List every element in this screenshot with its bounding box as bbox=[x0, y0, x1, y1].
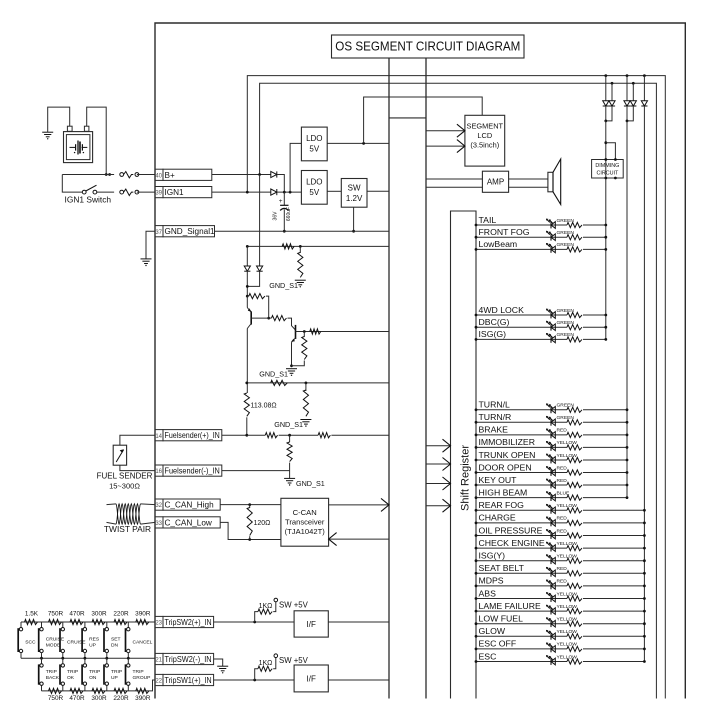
svg-text:GREEN: GREEN bbox=[557, 320, 575, 326]
svg-text:1.5K: 1.5K bbox=[25, 611, 39, 618]
speaker SP1 bbox=[548, 172, 553, 192]
svg-text:YELLOW: YELLOW bbox=[557, 617, 578, 623]
node B+ rail taps bbox=[611, 82, 614, 85]
transceiver U7 C-CAN bbox=[281, 498, 329, 546]
svg-text:TRIP: TRIP bbox=[133, 669, 144, 675]
resistor 750R bottom bbox=[49, 688, 62, 693]
pin 23 TripSW2(+)_IN bbox=[155, 616, 163, 627]
wire D2 out to LDO bbox=[277, 191, 301, 193]
wire Q2 emitter to ground bbox=[291, 342, 293, 366]
svg-text:C-CAN: C-CAN bbox=[293, 508, 317, 517]
svg-text:GND_S1: GND_S1 bbox=[274, 420, 303, 429]
svg-text:YELLOW: YELLOW bbox=[557, 604, 578, 610]
wire LDO1 feed bbox=[290, 143, 301, 192]
svg-text:ESC OFF: ESC OFF bbox=[479, 639, 517, 649]
resistor R12 base loop bbox=[249, 294, 265, 299]
svg-text:I/F: I/F bbox=[307, 620, 316, 629]
svg-text:GREEN: GREEN bbox=[557, 332, 575, 338]
svg-text:TAIL: TAIL bbox=[479, 215, 497, 225]
svg-text:GREEN: GREEN bbox=[557, 230, 575, 236]
resistor R23 120ohm bbox=[249, 505, 251, 508]
svg-text:YELLOW: YELLOW bbox=[557, 629, 578, 635]
svg-text:GREEN: GREEN bbox=[557, 218, 575, 224]
wire fuel sender top bbox=[120, 435, 155, 445]
svg-text:RED: RED bbox=[557, 478, 568, 484]
svg-text:SW +5V: SW +5V bbox=[279, 656, 309, 665]
svg-text:TRUNK OPEN: TRUNK OPEN bbox=[479, 450, 536, 460]
svg-text:YELLOW: YELLOW bbox=[557, 654, 578, 660]
svg-text:I/F: I/F bbox=[307, 674, 316, 683]
svg-text:DBC(G): DBC(G) bbox=[479, 317, 510, 327]
svg-text:GND_Signal1: GND_Signal1 bbox=[165, 227, 216, 236]
svg-text:C_CAN_High: C_CAN_High bbox=[165, 501, 215, 510]
svg-text:21: 21 bbox=[155, 658, 162, 664]
wire LED bus middle group bbox=[626, 121, 628, 498]
svg-text:YELLOW: YELLOW bbox=[557, 541, 578, 547]
switch S3 CRUISE bbox=[62, 622, 64, 627]
svg-text:CIRCUIT: CIRCUIT bbox=[596, 171, 619, 177]
node R11 top bbox=[299, 245, 302, 248]
svg-text:BRAKE: BRAKE bbox=[479, 425, 509, 435]
regulator U4 LDO 5V bbox=[301, 171, 327, 205]
wire B+ to diode bbox=[212, 174, 271, 176]
svg-text:SCC: SCC bbox=[25, 640, 36, 646]
wire TripSW2+ to IF bbox=[214, 621, 295, 623]
resistor R16 bbox=[271, 380, 288, 385]
dimming circuit U5 bbox=[604, 141, 607, 144]
fuse F1 bbox=[120, 173, 124, 177]
wire shift register data 4 bbox=[426, 505, 451, 507]
switch S4 RES UP bbox=[84, 622, 86, 627]
svg-text:DIMMING: DIMMING bbox=[595, 163, 619, 169]
svg-text:DOOR OPEN: DOOR OPEN bbox=[479, 462, 532, 472]
indicator row OIL PRESSURE LED RED bbox=[476, 535, 567, 537]
svg-text:GREEN: GREEN bbox=[557, 242, 575, 248]
resistor R21 bbox=[318, 433, 330, 438]
switch S9 TRIP ON bbox=[84, 658, 86, 663]
svg-text:CRUISE: CRUISE bbox=[46, 637, 65, 643]
svg-text:IMMOBILIZER: IMMOBILIZER bbox=[479, 437, 535, 447]
resistor R24 1K bbox=[255, 612, 258, 622]
svg-text:TripSW2(+)_IN: TripSW2(+)_IN bbox=[165, 618, 212, 627]
wire C_CAN_Low line bbox=[220, 522, 281, 539]
wire CAN RX bbox=[329, 538, 389, 540]
indicator row ESC LED YELLOW bbox=[476, 661, 567, 663]
svg-text:SET: SET bbox=[111, 637, 121, 643]
wire fuel sender bottom bbox=[120, 465, 155, 470]
resistor R14 bbox=[310, 329, 321, 334]
indicator row HIGH BEAM LED BLUE bbox=[476, 497, 567, 499]
svg-text:GREEN: GREEN bbox=[557, 403, 575, 409]
svg-text:CANCEL: CANCEL bbox=[133, 640, 153, 646]
svg-text:SEGMENT: SEGMENT bbox=[467, 122, 504, 131]
wire 246 rail bbox=[247, 245, 389, 247]
interface U9 I/F bbox=[294, 665, 328, 692]
svg-text:LAME FAILURE: LAME FAILURE bbox=[479, 601, 541, 611]
diode D3 bbox=[605, 76, 607, 101]
display U1 SEGMENT LCD bbox=[465, 115, 505, 166]
svg-text:YELLOW: YELLOW bbox=[557, 440, 578, 446]
diode D4 bbox=[611, 83, 613, 101]
svg-text:KEY OUT: KEY OUT bbox=[479, 475, 518, 485]
switch IGN1 bbox=[82, 190, 86, 194]
svg-text:Fuelsender(-)_IN: Fuelsender(-)_IN bbox=[165, 467, 220, 476]
svg-text:470R: 470R bbox=[69, 695, 85, 702]
wire AMP out bbox=[509, 178, 548, 180]
svg-text:5V: 5V bbox=[309, 188, 319, 197]
wire GND_Signal1 line bbox=[215, 230, 390, 232]
svg-text:YELLOW: YELLOW bbox=[557, 503, 578, 509]
fuse F2 bbox=[120, 190, 124, 194]
fuel sender R19 bbox=[113, 445, 126, 465]
svg-text:1.2V: 1.2V bbox=[346, 194, 363, 203]
svg-text:LOW FUEL: LOW FUEL bbox=[479, 614, 524, 624]
indicator row DBC(G) LED GREEN bbox=[476, 326, 567, 328]
wire C_CAN_High line bbox=[220, 504, 281, 506]
resistor 470R bbox=[70, 619, 83, 624]
indicator row TRUNK OPEN LED YELLOW bbox=[476, 459, 567, 461]
svg-text:DN: DN bbox=[111, 643, 119, 649]
wire GND_Signal1 stub bbox=[146, 231, 155, 259]
wire IGN1 rail top bbox=[247, 76, 665, 699]
svg-text:YELLOW: YELLOW bbox=[557, 642, 578, 648]
svg-text:1KΩ: 1KΩ bbox=[259, 603, 273, 610]
resistor R17 bbox=[305, 383, 307, 391]
svg-text:OS SEGMENT CIRCUIT DIAGRAM: OS SEGMENT CIRCUIT DIAGRAM bbox=[335, 39, 520, 54]
svg-text:CHECK ENGINE: CHECK ENGINE bbox=[479, 538, 545, 548]
wire SW output bbox=[367, 190, 389, 192]
svg-text:GROUP: GROUP bbox=[133, 675, 151, 681]
indicator row TAIL LED GREEN bbox=[476, 224, 567, 226]
outer border frame bbox=[155, 23, 685, 699]
svg-text:390R: 390R bbox=[135, 611, 151, 618]
shift register box U2 bbox=[451, 211, 477, 699]
svg-text:32: 32 bbox=[155, 503, 162, 509]
pin 33 C_CAN_Low bbox=[155, 517, 163, 528]
indicator row GLOW LED YELLOW bbox=[476, 635, 567, 637]
svg-text:TWIST PAIR: TWIST PAIR bbox=[104, 524, 151, 534]
svg-text:16: 16 bbox=[155, 469, 162, 475]
svg-text:LCD: LCD bbox=[477, 131, 492, 140]
svg-text:660uF: 660uF bbox=[286, 207, 292, 221]
resistor 1.5K bbox=[25, 619, 38, 624]
svg-text:33: 33 bbox=[155, 521, 162, 527]
wire B+ feed bbox=[62, 174, 114, 176]
svg-text:OK: OK bbox=[67, 675, 75, 681]
svg-text:AMP: AMP bbox=[487, 178, 504, 187]
transistor Q2 bbox=[295, 325, 297, 339]
svg-text:ABS: ABS bbox=[479, 588, 497, 598]
svg-text:ISG(G): ISG(G) bbox=[479, 329, 507, 339]
resistor R13 to Q2 bbox=[272, 316, 287, 321]
indicator row TURN/R LED GREEN bbox=[476, 421, 567, 423]
svg-text:(TJA1042T): (TJA1042T) bbox=[285, 527, 326, 536]
switch S1 SCC bbox=[20, 622, 22, 627]
switch S10 TRIP UP bbox=[106, 658, 108, 663]
wire TripSW2- rail bbox=[21, 657, 155, 659]
svg-text:RES: RES bbox=[89, 637, 100, 643]
wire IGN1 to diode bbox=[212, 191, 271, 193]
indicator row BRAKE LED RED bbox=[476, 434, 567, 436]
indicator row IMMOBILIZER LED YELLOW bbox=[476, 446, 567, 448]
switch S11 TRIP GROUP bbox=[127, 658, 129, 663]
interface U8 I/F bbox=[294, 611, 328, 637]
svg-text:37: 37 bbox=[155, 230, 162, 236]
svg-text:YELLOW: YELLOW bbox=[557, 591, 578, 597]
diode D5 bbox=[626, 76, 628, 101]
ground TripSW2- bbox=[217, 665, 228, 667]
svg-text:YELLOW: YELLOW bbox=[557, 554, 578, 560]
svg-text:Transceiver: Transceiver bbox=[285, 518, 325, 527]
svg-text:22: 22 bbox=[155, 679, 162, 685]
indicator row CHECK ENGINE LED YELLOW bbox=[476, 547, 567, 549]
wire TripSW2+ rail bbox=[21, 621, 155, 623]
svg-text:TripSW2(-)_IN: TripSW2(-)_IN bbox=[165, 655, 212, 664]
wire IGN1 switch branch bbox=[62, 175, 82, 193]
resistor R22 bbox=[289, 435, 291, 442]
svg-text:TRIP: TRIP bbox=[67, 669, 78, 675]
svg-text:REAR FOG: REAR FOG bbox=[479, 500, 525, 510]
svg-text:GND_S1: GND_S1 bbox=[259, 370, 288, 379]
svg-text:1KΩ: 1KΩ bbox=[259, 660, 273, 667]
svg-text:GND_S1: GND_S1 bbox=[269, 281, 298, 290]
svg-text:TURN/R: TURN/R bbox=[479, 412, 512, 422]
svg-text:CHARGE: CHARGE bbox=[479, 513, 516, 523]
svg-text:TRIP: TRIP bbox=[111, 669, 122, 675]
battery BT1 bbox=[67, 126, 72, 131]
wire TripSW2- ground bbox=[214, 659, 223, 666]
svg-text:SEAT BELT: SEAT BELT bbox=[479, 563, 525, 573]
wire LCD data 1 bbox=[426, 130, 465, 132]
svg-text:220R: 220R bbox=[113, 695, 129, 702]
svg-text:23: 23 bbox=[155, 621, 162, 627]
resistor 300R bottom bbox=[92, 688, 105, 693]
capacitor C1 660uF bbox=[283, 192, 285, 205]
pin 16 Fuelsender(-)_IN bbox=[155, 465, 163, 476]
ground fuel bbox=[284, 477, 295, 479]
svg-text:HIGH BEAM: HIGH BEAM bbox=[479, 487, 528, 497]
svg-text:RED: RED bbox=[557, 566, 568, 572]
resistor R18 113.08 bbox=[244, 393, 249, 416]
svg-text:IGN1 Switch: IGN1 Switch bbox=[65, 195, 112, 205]
indicator row ESC OFF LED YELLOW bbox=[476, 648, 567, 650]
resistor 220R bbox=[114, 619, 127, 624]
svg-text:GLOW: GLOW bbox=[479, 626, 506, 636]
svg-text:MODE: MODE bbox=[46, 643, 61, 649]
svg-text:TRIP: TRIP bbox=[46, 669, 57, 675]
indicator row SEAT BELT LED RED bbox=[476, 572, 567, 574]
svg-text:(3.5inch): (3.5inch) bbox=[470, 141, 499, 150]
svg-text:14: 14 bbox=[155, 434, 162, 440]
svg-text:TripSW1(+)_IN: TripSW1(+)_IN bbox=[165, 676, 212, 685]
wire LCD power bbox=[364, 97, 483, 143]
ground battery bbox=[42, 131, 53, 133]
indicator row ISG(G) LED GREEN bbox=[476, 338, 567, 340]
regulator U3 LDO 5V bbox=[301, 127, 327, 161]
wire Q1 collector bbox=[246, 329, 248, 394]
svg-text:RED: RED bbox=[557, 528, 568, 534]
svg-text:RED: RED bbox=[557, 428, 568, 434]
diode D9 bbox=[259, 175, 261, 267]
svg-text:CRUISE: CRUISE bbox=[67, 640, 86, 646]
pin 32 C_CAN_High bbox=[155, 499, 163, 510]
wire Fuelsender- line bbox=[222, 470, 290, 472]
svg-text:TURN/L: TURN/L bbox=[479, 400, 511, 410]
resistor 750R bbox=[49, 619, 62, 624]
ground R11 bbox=[295, 279, 306, 281]
indicator row LowBeam LED GREEN bbox=[476, 248, 567, 250]
transistor Q1 bbox=[250, 311, 252, 324]
svg-text:220R: 220R bbox=[113, 611, 129, 618]
svg-text:39: 39 bbox=[155, 191, 162, 197]
wire SW ground stub bbox=[353, 207, 355, 231]
indicator row LOW FUEL LED YELLOW bbox=[476, 623, 567, 625]
resistor R11 bbox=[299, 246, 301, 253]
diode D1 bbox=[271, 171, 277, 177]
svg-text:300R: 300R bbox=[91, 611, 107, 618]
svg-text:120Ω: 120Ω bbox=[254, 520, 271, 527]
diode D8 bbox=[246, 246, 248, 266]
svg-text:+: + bbox=[279, 198, 283, 205]
indicator row MDPS LED RED bbox=[476, 585, 567, 587]
svg-text:390R: 390R bbox=[135, 695, 151, 702]
svg-text:ESC: ESC bbox=[479, 651, 497, 661]
wire shift register data 2 bbox=[426, 463, 451, 465]
svg-text:Shift Register: Shift Register bbox=[460, 445, 472, 511]
indicator row TURN/L LED GREEN bbox=[476, 409, 567, 411]
pin 40 B+ bbox=[155, 169, 163, 180]
indicator row FRONT FOG LED GREEN bbox=[476, 236, 567, 238]
diode D7 bbox=[643, 76, 645, 101]
indicator row CHARGE LED RED bbox=[476, 522, 567, 524]
pin 22 TripSW1(+)_IN bbox=[155, 674, 163, 685]
resistor 300R bbox=[92, 619, 105, 624]
wire 383 rail bbox=[247, 382, 389, 384]
MICOM bus box bbox=[388, 58, 390, 699]
svg-text:LDO: LDO bbox=[306, 178, 322, 187]
svg-text:40: 40 bbox=[155, 173, 162, 179]
indicator row DOOR OPEN LED RED bbox=[476, 472, 567, 474]
svg-text:15~300Ω: 15~300Ω bbox=[109, 481, 140, 490]
amplifier U10 AMP bbox=[482, 171, 508, 192]
node IGN1 rail taps bbox=[604, 74, 607, 77]
wire LED bus yellow group bbox=[643, 106, 645, 662]
pin 21 TripSW2(-)_IN bbox=[155, 653, 163, 664]
switch S6 CANCEL bbox=[127, 622, 129, 627]
svg-text:LowBeam: LowBeam bbox=[479, 239, 518, 249]
svg-text:TRIP: TRIP bbox=[89, 669, 100, 675]
pin 39 IGN1 bbox=[155, 187, 163, 198]
svg-text:LDO: LDO bbox=[306, 134, 322, 143]
resistor R20 bbox=[265, 433, 277, 438]
pin 37 GND_Signal1 bbox=[155, 226, 163, 237]
switch S7 TRIP BACK bbox=[41, 658, 43, 663]
svg-text:Fuelsender(+)_IN: Fuelsender(+)_IN bbox=[165, 431, 220, 440]
indicator row REAR FOG LED YELLOW bbox=[476, 509, 567, 511]
ground GND_Signal1 bbox=[141, 258, 152, 260]
node Q1 top bbox=[246, 295, 249, 298]
svg-text:GREEN: GREEN bbox=[557, 415, 575, 421]
svg-text:UP: UP bbox=[89, 643, 96, 649]
twist pair bbox=[116, 504, 141, 524]
wire TripSW1+ to IF bbox=[214, 679, 295, 681]
svg-text:470R: 470R bbox=[69, 611, 85, 618]
svg-text:GND_S1: GND_S1 bbox=[296, 479, 325, 488]
svg-text:GREEN: GREEN bbox=[557, 308, 575, 314]
wire AMP in bbox=[426, 178, 482, 180]
svg-text:750R: 750R bbox=[48, 611, 64, 618]
pin 14 Fuelsender(+)_IN bbox=[155, 430, 163, 441]
svg-text:300R: 300R bbox=[91, 695, 107, 702]
resistor 470R bottom bbox=[70, 688, 83, 693]
wire LED bus green group bbox=[605, 121, 607, 340]
svg-text:ISG(Y): ISG(Y) bbox=[479, 551, 506, 561]
svg-text:4WD LOCK: 4WD LOCK bbox=[479, 305, 525, 315]
wire CAN TX bbox=[329, 504, 389, 506]
svg-text:RED: RED bbox=[557, 465, 568, 471]
indicator row 4WD LOCK LED GREEN bbox=[476, 314, 567, 316]
wire battery negative bbox=[48, 107, 70, 132]
regulator U6 SW 1.2V bbox=[341, 179, 367, 208]
resistor R25 1K bbox=[255, 669, 258, 680]
svg-text:IGN1: IGN1 bbox=[165, 188, 185, 197]
switch S8 TRIP OK bbox=[62, 658, 64, 663]
node B+ junction bbox=[105, 173, 108, 176]
svg-text:FUEL SENDER: FUEL SENDER bbox=[97, 472, 153, 481]
svg-text:750R: 750R bbox=[48, 695, 64, 702]
svg-text:UP: UP bbox=[111, 675, 118, 681]
indicator row ISG(Y) LED YELLOW bbox=[476, 560, 567, 562]
wire IF1 out bbox=[328, 621, 389, 623]
svg-text:YELLOW: YELLOW bbox=[557, 453, 578, 459]
ground Q2 bbox=[286, 368, 297, 370]
resistor 390R bbox=[136, 619, 149, 624]
resistor 390R bottom bbox=[136, 688, 149, 693]
wire TripSW1+ rail bbox=[42, 680, 156, 691]
svg-text:B+: B+ bbox=[165, 171, 175, 180]
wire Fuelsender+ line bbox=[222, 434, 247, 436]
wire Q2 collector rail bbox=[304, 331, 389, 333]
switch S5 SET DN bbox=[106, 622, 108, 627]
switch S2 CRUISE MODE bbox=[41, 622, 43, 627]
wire shift register data 1 bbox=[426, 445, 451, 447]
wire LDO2 to SW bbox=[327, 190, 341, 192]
wire LCD data 2 bbox=[426, 145, 465, 147]
diode D2 bbox=[271, 189, 277, 195]
svg-text:RED: RED bbox=[557, 516, 568, 522]
svg-text:MDPS: MDPS bbox=[479, 576, 504, 586]
svg-text:SW: SW bbox=[348, 184, 361, 193]
diode D6 bbox=[632, 83, 634, 101]
wire IF2 out bbox=[328, 679, 389, 681]
svg-text:ON: ON bbox=[89, 675, 97, 681]
wire D1 out bbox=[277, 175, 284, 193]
wire B+ rail top bbox=[260, 83, 657, 698]
svg-text:OIL PRESSURE: OIL PRESSURE bbox=[479, 525, 543, 535]
indicator row LAME FAILURE LED YELLOW bbox=[476, 610, 567, 612]
node cap to GND bbox=[283, 230, 286, 233]
resistor R15 bbox=[303, 332, 305, 338]
wire shift register data 3 bbox=[426, 483, 451, 485]
svg-text:FRONT FOG: FRONT FOG bbox=[479, 227, 530, 237]
svg-text:113.08Ω: 113.08Ω bbox=[251, 403, 277, 410]
svg-text:5V: 5V bbox=[309, 145, 319, 154]
indicator row KEY OUT LED RED bbox=[476, 484, 567, 486]
svg-text:RED: RED bbox=[557, 579, 568, 585]
svg-text:SW +5V: SW +5V bbox=[279, 600, 309, 609]
resistor 220R bottom bbox=[114, 688, 127, 693]
ground R17 bbox=[300, 419, 311, 421]
